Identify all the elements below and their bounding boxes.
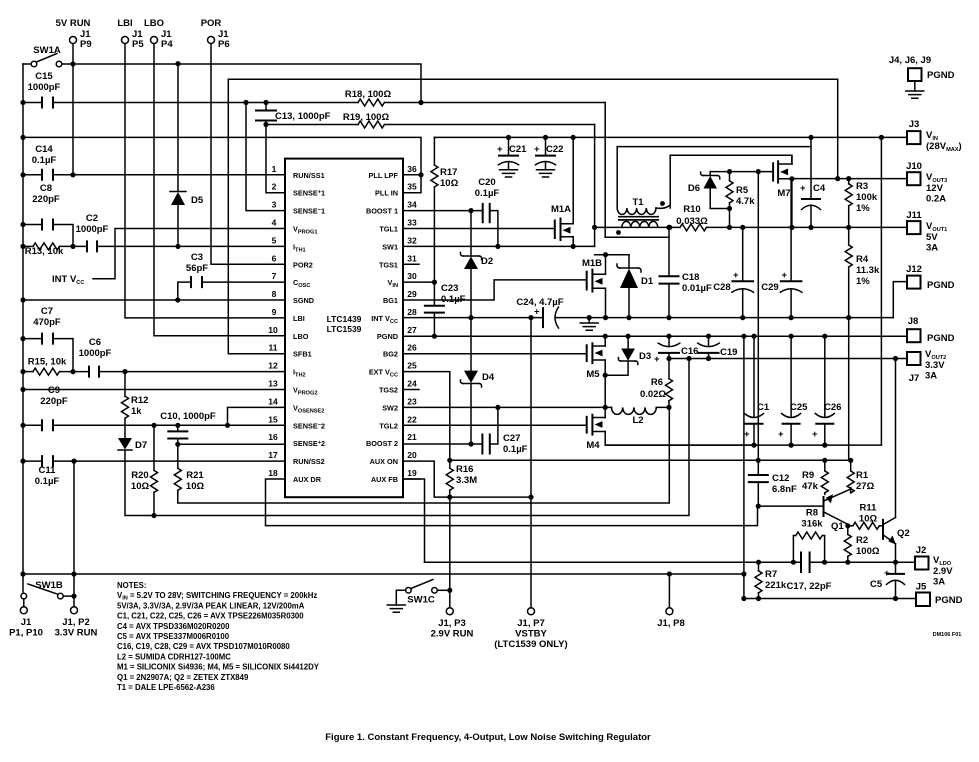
svg-text:C12: C12	[772, 473, 789, 484]
node VIN rail / C21	[506, 135, 511, 140]
svg-text:PGND: PGND	[935, 595, 963, 606]
svg-text:SW1B: SW1B	[35, 580, 63, 591]
svg-text:14: 14	[268, 396, 278, 406]
node PGND line / M5	[603, 334, 608, 339]
wire INTVCC pin28 line with C24 in series	[403, 317, 893, 319]
svg-text:6: 6	[272, 253, 277, 263]
connector J3 VIN	[907, 119, 962, 153]
node PGND line / C25 top	[789, 334, 794, 339]
node VIN rail / C22	[543, 135, 548, 140]
svg-text:32: 32	[407, 235, 417, 245]
svg-text:R9: R9	[802, 470, 814, 481]
svg-text:P1, P10: P1, P10	[9, 628, 43, 639]
node SW1A right to 5VRUN switched line	[70, 61, 75, 66]
node SENSE-2 line / R20 top	[151, 423, 156, 428]
svg-text:3.3M: 3.3M	[456, 475, 477, 486]
svg-text:BOOST 1: BOOST 1	[366, 207, 398, 216]
svg-text:D4: D4	[482, 372, 495, 383]
node rail/C9	[20, 423, 25, 428]
U1 pin numbers left	[268, 164, 278, 478]
svg-text:1000pF: 1000pF	[28, 82, 61, 93]
switch SW1B	[21, 580, 74, 599]
svg-text:0.1µF: 0.1µF	[32, 155, 57, 166]
wire Q1 base line	[758, 505, 823, 507]
node primary right / R10	[667, 225, 672, 230]
svg-text:+: +	[800, 183, 806, 194]
capacitor C20	[475, 177, 500, 223]
capacitor C8	[23, 183, 73, 246]
wire PGND rail long	[23, 573, 744, 575]
svg-text:100k: 100k	[856, 192, 878, 203]
svg-text:M1A: M1A	[551, 204, 571, 215]
capacitor C29	[761, 179, 802, 318]
diode D5	[170, 64, 204, 247]
svg-text:1k: 1k	[131, 406, 142, 417]
node PGND line / C26 top	[822, 334, 827, 339]
connector J1 P6 (POR)	[201, 18, 230, 50]
svg-text:R6: R6	[651, 377, 663, 388]
U1 left pin names	[293, 171, 325, 484]
zener D1	[617, 255, 654, 318]
svg-text:M4: M4	[586, 440, 600, 451]
svg-text:J5: J5	[916, 582, 927, 593]
wire SGND pin 8 from rail	[23, 299, 285, 301]
pin 31 stub TGS1	[403, 263, 419, 265]
svg-text:1000pF: 1000pF	[79, 348, 112, 359]
node C5 bottom on PGND bottom line	[893, 596, 898, 601]
svg-text:34: 34	[407, 200, 417, 210]
node C29 bottom on PGND line	[789, 315, 794, 320]
svg-text:J12: J12	[906, 264, 922, 275]
node VLDO / R7 top	[756, 560, 761, 565]
svg-text:C18: C18	[682, 272, 699, 283]
resistor R6	[640, 359, 673, 408]
svg-text:PLL LPF: PLL LPF	[369, 171, 399, 180]
U1 right pin names	[366, 171, 399, 484]
wire R21 bottom to AUX FB column	[178, 407, 670, 503]
svg-text:C10, 1000pF: C10, 1000pF	[160, 411, 216, 422]
svg-text:28: 28	[407, 307, 417, 317]
node C11 / 3.3V RUN column	[71, 459, 76, 464]
node rail / left ground rail	[20, 571, 25, 576]
node R19 drop / primary line	[592, 225, 597, 230]
wire VSTBY column down to J1 P7	[530, 318, 532, 608]
svg-text:R4: R4	[856, 254, 869, 265]
wire T1 secondary right to M7 drain	[670, 155, 792, 164]
svg-text:P6: P6	[218, 39, 230, 50]
transistor Q2 (NPN)	[883, 359, 910, 563]
svg-text:19: 19	[407, 468, 417, 478]
svg-text:35: 35	[407, 182, 417, 192]
svg-text:D5: D5	[191, 195, 204, 206]
svg-text:R3: R3	[856, 181, 868, 192]
svg-text:3.3V RUN: 3.3V RUN	[55, 628, 98, 639]
svg-text:C7: C7	[41, 306, 53, 317]
svg-text:33: 33	[407, 218, 417, 228]
resistor R1	[847, 460, 874, 493]
connector J4 J6 J9 PGND with ground	[889, 55, 955, 98]
svg-text:C27: C27	[503, 433, 520, 444]
node C28 top on 5V line	[740, 225, 745, 230]
wire BOOST1 pin 34 line through C20	[403, 211, 498, 247]
svg-text:3A: 3A	[933, 577, 945, 588]
capacitor C22 with ground	[534, 137, 563, 177]
svg-text:17: 17	[268, 450, 278, 460]
svg-text:PGND: PGND	[927, 70, 955, 81]
svg-text:J10: J10	[906, 161, 922, 172]
label INT VCC with wire to VPROG1	[52, 229, 285, 287]
wire M1B drain link	[595, 254, 629, 256]
wire T1 secondary left riser to C4 column	[617, 146, 811, 148]
MOSFET M1A	[551, 137, 573, 246]
svg-text:PLL IN: PLL IN	[375, 189, 398, 198]
svg-text:R1: R1	[856, 470, 869, 481]
ground rail left	[22, 64, 24, 592]
wire LBO to pin 10	[154, 44, 285, 336]
wire TGL1 pin 33 to M1A gate	[403, 228, 555, 230]
capacitor C27	[482, 407, 527, 455]
wire 12V sense SFB1 top line	[228, 79, 837, 178]
resistor R18	[246, 89, 605, 106]
svg-text:TGS2: TGS2	[379, 386, 398, 395]
U1 pin numbers right	[407, 164, 417, 478]
wire J12 corner	[893, 282, 907, 318]
node L2 right / R6 bottom	[666, 405, 671, 410]
node M1B drain	[603, 252, 608, 257]
svg-text:PGND: PGND	[377, 332, 398, 341]
resistor R16	[446, 460, 477, 497]
svg-text:10Ω: 10Ω	[186, 481, 205, 492]
svg-text:12: 12	[268, 361, 278, 371]
svg-text:J1, P2: J1, P2	[62, 617, 89, 628]
svg-text:1%: 1%	[856, 276, 870, 287]
svg-text:220pF: 220pF	[40, 396, 68, 407]
svg-text:1000pF: 1000pF	[76, 224, 109, 235]
svg-text:D1: D1	[641, 276, 654, 287]
node R3 bottom / R4 top on 5V line	[846, 225, 851, 230]
wire EXT VCC line right	[450, 459, 851, 461]
svg-text:11: 11	[269, 343, 278, 353]
svg-text:LBI: LBI	[293, 314, 305, 323]
resistor R17	[431, 137, 459, 282]
wire EXTVCC drop from M7 gate line	[757, 172, 759, 461]
svg-text:LTC1439: LTC1439	[327, 314, 362, 324]
svg-text:TGL1: TGL1	[379, 225, 398, 234]
svg-text:C20: C20	[478, 177, 495, 188]
connector J1 P2 (3.3V RUN)	[55, 574, 98, 639]
svg-text:Q1: Q1	[831, 521, 844, 532]
node C4 bottom on 5V line	[808, 225, 813, 230]
resistor R20	[131, 425, 158, 515]
svg-text:21: 21	[407, 432, 417, 442]
wire 3.3V RUN column down to rail	[73, 461, 75, 574]
wire VPROG2 pin 13 from rail	[23, 389, 285, 391]
svg-text:0.2A: 0.2A	[926, 194, 946, 205]
svg-text:AUX FB: AUX FB	[371, 475, 398, 484]
node C25 bottom	[789, 443, 794, 448]
node M5 bottom / D3 line	[603, 373, 608, 378]
capacitor C14	[23, 144, 285, 181]
svg-text:C22: C22	[546, 144, 563, 155]
resistor R3	[845, 179, 878, 228]
connector J11 VOUT1	[906, 210, 947, 254]
node rail/C7	[20, 336, 25, 341]
svg-text:5V: 5V	[926, 232, 938, 243]
svg-text:SW1: SW1	[382, 242, 398, 251]
svg-text:POR2: POR2	[293, 260, 313, 269]
node C27 right on SW2 line	[495, 405, 500, 410]
node PGND line / V743 drop	[741, 334, 746, 339]
node M7 source column on 5V line	[789, 225, 794, 230]
op-amp U1 IC body	[285, 159, 403, 498]
node rail/C8	[20, 222, 25, 227]
node C18 top on 5V line	[666, 225, 671, 230]
wire 5V line right	[707, 226, 908, 228]
svg-text:R19, 100Ω: R19, 100Ω	[343, 112, 390, 123]
wire POR to pin 6	[211, 44, 285, 264]
node PGND line / C16	[666, 334, 671, 339]
svg-text:3: 3	[272, 200, 277, 210]
wire PLL line from rail to pins 35/36	[23, 137, 421, 192]
svg-text:7: 7	[272, 271, 277, 281]
connector J2 VLDO	[915, 545, 953, 588]
primary winding bottom	[622, 221, 658, 227]
svg-text:J3: J3	[909, 119, 920, 130]
capacitor C12	[748, 460, 797, 506]
resistor R12	[122, 372, 149, 438]
MOSFET M5	[586, 336, 605, 407]
svg-text:221k: 221k	[765, 580, 787, 591]
node rail/C14	[20, 172, 25, 177]
capacitor C18	[659, 227, 712, 317]
svg-text:56pF: 56pF	[186, 263, 208, 274]
node gate line / EXTVCC drop	[756, 169, 761, 174]
node C19 bottom on VOUT2 line	[706, 356, 711, 361]
node R17 bottom / VIN pin	[432, 280, 437, 285]
node pin36/PLL	[418, 172, 423, 177]
svg-text:C29: C29	[761, 282, 778, 293]
capacitor C17	[787, 552, 832, 593]
svg-text:M1 = SILICONIX Si4936; M4, M5: M1 = SILICONIX Si4936; M4, M5 = SILICONI…	[117, 663, 320, 672]
capacitor C11	[23, 455, 285, 487]
node C3/SGND	[175, 297, 180, 302]
svg-text:C5 = AVX TPSE337M006R0100: C5 = AVX TPSE337M006R0100	[117, 632, 230, 641]
capacitor C19	[698, 336, 738, 358]
svg-text:SW1C: SW1C	[407, 595, 435, 606]
node rail/SGND	[20, 297, 25, 302]
svg-text:R10: R10	[683, 204, 700, 215]
svg-text:10Ω: 10Ω	[131, 481, 150, 492]
svg-text:2.9V RUN: 2.9V RUN	[431, 629, 474, 640]
svg-text:C16: C16	[681, 346, 698, 357]
svg-text:NOTES:: NOTES:	[117, 581, 146, 590]
svg-text:TGS1: TGS1	[379, 260, 398, 269]
wire V743 PGND drop	[743, 336, 745, 598]
resistor R13	[23, 243, 87, 257]
svg-text:2.9V: 2.9V	[933, 566, 953, 577]
svg-text:5: 5	[272, 235, 277, 245]
svg-text:POR: POR	[201, 18, 222, 29]
svg-text:3A: 3A	[925, 371, 937, 382]
node SENSE-2 line / C10 top	[175, 423, 180, 428]
svg-text:J1, P3: J1, P3	[438, 618, 465, 629]
svg-text:25: 25	[407, 361, 417, 371]
wire VOUT2 line to J7	[669, 358, 907, 360]
svg-text:12V: 12V	[926, 183, 944, 194]
secondary winding top	[616, 147, 618, 208]
capacitor C13	[255, 103, 331, 125]
svg-text:3.3V: 3.3V	[925, 360, 945, 371]
svg-text:R21: R21	[186, 470, 204, 481]
connector J1 P5 (LBI)	[117, 18, 144, 50]
svg-text:J2: J2	[916, 545, 927, 556]
node SW2/L2 junction	[603, 405, 608, 410]
pin 24 stub TGS2	[403, 389, 419, 391]
wire SW2 pin 23 line	[403, 406, 605, 408]
capacitor C3	[178, 252, 285, 300]
svg-text:D2: D2	[481, 256, 493, 267]
svg-text:R7: R7	[765, 569, 777, 580]
capacitor C7	[23, 306, 73, 372]
capacitor C28	[713, 227, 754, 317]
capacitor C1	[744, 336, 770, 445]
svg-text:18: 18	[268, 468, 278, 478]
svg-text:11.3k: 11.3k	[856, 265, 880, 276]
node VSTBY column top	[528, 315, 533, 320]
capacitor C21 with ground	[497, 137, 527, 177]
node C28 bottom on PGND line	[740, 315, 745, 320]
node VIN rail / C4 column	[808, 135, 813, 140]
wire M7 gate line	[710, 171, 773, 173]
svg-text:J4, J6, J9: J4, J6, J9	[889, 55, 931, 66]
svg-text:BG2: BG2	[383, 350, 398, 359]
svg-text:SW2: SW2	[382, 403, 398, 412]
svg-text:T1 = DALE LPE-6562-A236: T1 = DALE LPE-6562-A236	[117, 683, 215, 692]
wire RUN/SS1 pin1: done above; SENSE+1 pin 2 from C13 bottom	[266, 125, 285, 193]
svg-text:C23: C23	[441, 283, 458, 294]
node rail/R13	[20, 244, 25, 249]
node gate line / R5	[727, 169, 732, 174]
connector J5 PGND	[916, 582, 963, 607]
svg-text:J1, P8: J1, P8	[657, 618, 684, 629]
svg-text:8: 8	[272, 289, 277, 299]
resistor R15	[23, 357, 89, 376]
capacitor C4	[800, 137, 826, 227]
node VLDO / R8-C17 left	[791, 560, 796, 565]
node EXTVCC / R1 top	[848, 458, 853, 463]
svg-text:R5: R5	[736, 185, 749, 196]
wire SW1 pin 32 line	[403, 245, 595, 247]
svg-text:SFB1: SFB1	[293, 350, 312, 359]
svg-text:C4: C4	[813, 183, 826, 194]
svg-text:SENSE+2: SENSE+2	[293, 439, 325, 448]
svg-text:C15: C15	[35, 71, 53, 82]
svg-text:22: 22	[407, 414, 417, 424]
node EXTVCC / R16 top	[447, 458, 452, 463]
node rail / J1P8	[667, 571, 672, 576]
diode D7	[118, 438, 154, 516]
svg-text:L2: L2	[632, 415, 643, 426]
node C26 bottom	[822, 443, 827, 448]
svg-text:BOOST 2: BOOST 2	[366, 439, 398, 448]
node M7 source / 12V line	[789, 176, 794, 181]
capacitor C15	[23, 71, 246, 109]
svg-text:+: +	[497, 144, 503, 155]
node rail/VPROG2	[20, 387, 25, 392]
resistor R2	[844, 526, 880, 562]
svg-text:R18, 100Ω: R18, 100Ω	[345, 89, 392, 100]
node C12 bottom / Q1 base line / AUXDR riser	[756, 504, 761, 509]
svg-text:10: 10	[268, 325, 278, 335]
connector J1 P7 (VSTBY)	[494, 608, 567, 650]
svg-text:J11: J11	[906, 210, 922, 221]
svg-text:+: +	[654, 354, 660, 365]
node 12V line / R3 top	[846, 176, 851, 181]
svg-text:9: 9	[272, 307, 277, 317]
svg-text:Q1 = 2N2907A; Q2 = ZETEX ZTX84: Q1 = 2N2907A; Q2 = ZETEX ZTX849	[117, 673, 249, 682]
resistor R8	[793, 508, 824, 563]
node rail / 3.3VRUN column	[71, 571, 76, 576]
svg-text:J1: J1	[21, 617, 32, 628]
node R4 bottom on PGND line	[846, 315, 851, 320]
node SW1 / M1A source	[571, 244, 576, 249]
node SENSE-2 line / VOSENSE2 drop	[225, 423, 230, 428]
node VLDO / R8-C17 right	[822, 560, 827, 565]
inductor L2	[605, 407, 669, 426]
svg-text:10Ω: 10Ω	[859, 514, 878, 525]
node V743 bottom corner	[741, 596, 746, 601]
svg-text:BG1: BG1	[383, 296, 398, 305]
svg-text:31: 31	[407, 253, 417, 263]
wire switched 5V RUN top line	[73, 64, 421, 103]
zener D6	[688, 172, 730, 209]
wire VOSENSE2 jog to SENSE-2 line	[228, 407, 286, 425]
node D1 bottom	[626, 315, 631, 320]
svg-text:26: 26	[407, 343, 417, 353]
node SW1B right / J1P2 column	[71, 594, 76, 599]
svg-text:R2: R2	[856, 535, 868, 546]
svg-text:P9: P9	[80, 39, 92, 50]
node PGND line / C19	[706, 334, 711, 339]
svg-text:+: +	[744, 429, 750, 440]
node AUXON line / VSTBY column	[528, 495, 533, 500]
svg-text:+: +	[534, 307, 540, 318]
svg-text:J1, P7: J1, P7	[517, 618, 544, 629]
node PGND line / D3	[626, 334, 631, 339]
wire D7/R20 line to right	[154, 359, 689, 516]
svg-text:R11: R11	[860, 503, 878, 514]
svg-text:(LTC1539 ONLY): (LTC1539 ONLY)	[494, 639, 567, 650]
wire VIN pin 30 stub	[403, 281, 434, 283]
svg-text:LTC1539: LTC1539	[327, 324, 362, 334]
wire LBI to pin 9	[125, 44, 285, 318]
capacitor C9	[23, 385, 285, 431]
svg-text:R12: R12	[131, 395, 148, 406]
transformer T1	[616, 147, 670, 235]
svg-text:AUX DR: AUX DR	[293, 475, 322, 484]
switch SW1C with chassis ground	[387, 580, 450, 613]
node C14/J1P9 junction	[70, 172, 75, 177]
connector J1 P9 (5V RUN)	[56, 18, 92, 50]
connector J7 VOUT2	[907, 349, 946, 384]
MOSFET M7	[773, 155, 792, 227]
node PGND line / C1 top	[751, 334, 756, 339]
svg-text:0.1µF: 0.1µF	[503, 444, 528, 455]
node R2 bottom on VLDO line	[845, 560, 850, 565]
transistor Q1 (PNP)	[824, 489, 851, 532]
capacitor C26	[812, 336, 841, 445]
switch SW1A	[23, 45, 73, 67]
